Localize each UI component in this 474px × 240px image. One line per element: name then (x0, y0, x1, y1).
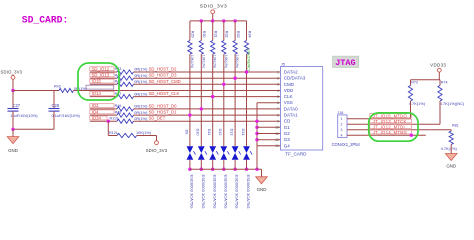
wire (90, 120, 117, 122)
wire (90, 71, 117, 73)
svg-text:R31: R31 (214, 31, 218, 38)
wire / net JT_IO13_MTCK (347, 123, 440, 125)
resistor R33 (pull-up) (234, 21, 236, 41)
wire (438, 72, 440, 80)
svg-text:SD_CARD:: SD_CARD: (22, 14, 69, 25)
node junction column/row (233, 77, 236, 80)
ground (445, 154, 457, 161)
svg-text:10K(1%)(NC): 10K(1%)(NC) (247, 49, 251, 71)
wire (212, 160, 214, 169)
svg-text:4: 4 (341, 134, 343, 138)
node junction collector (255, 120, 258, 123)
svg-text:0R(1%): 0R(1%) (134, 116, 148, 121)
empty label box on VDD row (86, 85, 114, 89)
svg-text:R29: R29 (191, 31, 195, 38)
svg-text:ESD0603 3CA75G: ESD0603 3CA75G (212, 175, 217, 209)
svg-text:R30: R30 (202, 31, 206, 38)
wire / net SD_HOST_D2 (134, 71, 281, 73)
svg-text:10K(1%): 10K(1%) (224, 55, 228, 68)
svg-text:IO4: IO4 (92, 109, 99, 114)
svg-text:0R(1%): 0R(1%) (134, 67, 148, 72)
svg-text:SD_HOST_CLK: SD_HOST_CLK (149, 91, 180, 96)
svg-text:0R(1%): 0R(1%) (134, 104, 148, 109)
wire rail (190, 20, 247, 22)
svg-text:0R(1%): 0R(1%) (134, 91, 148, 96)
node JT_IO12_MTDI label (370, 125, 412, 129)
node junction bottom (211, 168, 214, 171)
node junction (11, 128, 14, 131)
wire (107, 121, 109, 135)
svg-text:R34: R34 (247, 31, 251, 38)
resistor R30 (pull-up) (200, 21, 202, 41)
wire stub (257, 133, 281, 135)
wire / net JT_IO12_MTDI (347, 129, 451, 131)
node junction rail (211, 19, 214, 22)
wire (74, 90, 281, 92)
node junction rail (222, 19, 225, 22)
node junction (11, 89, 14, 92)
wire (450, 145, 452, 154)
wire (223, 160, 225, 169)
wire (200, 160, 202, 169)
node junction bottom (233, 168, 236, 171)
svg-text:SDIO_3V3: SDIO_3V3 (1, 70, 23, 75)
highlight box (left nets) (78, 63, 119, 100)
svg-text:6: 6 (277, 101, 279, 105)
wire (12, 111, 14, 129)
svg-text:DATA2: DATA2 (284, 70, 298, 75)
svg-text:SD_HOST_D1: SD_HOST_D1 (149, 110, 178, 115)
node junction column/row (211, 95, 214, 98)
wire ground bus (190, 168, 262, 170)
svg-text:D9: D9 (184, 130, 188, 135)
resistor R32 (pull-up) (223, 21, 225, 41)
node junction column/row (200, 107, 203, 110)
svg-text:D14: D14 (241, 129, 245, 136)
wire / net JT_IO14_MTMS (347, 134, 426, 136)
node junction collector (255, 132, 258, 135)
wire (246, 160, 248, 169)
resistor R34 (pull-up) (246, 21, 248, 41)
svg-text:10K(1%): 10K(1%) (235, 55, 239, 68)
svg-text:JT_IO13_MTCK: JT_IO13_MTCK (373, 119, 407, 124)
node junction (255, 168, 258, 171)
node IO14 label (90, 91, 114, 95)
wire (410, 101, 412, 119)
svg-text:0R(1%): 0R(1%) (134, 110, 148, 115)
svg-text:SDIO_3V3: SDIO_3V3 (146, 148, 168, 153)
svg-text:R81: R81 (452, 123, 459, 127)
svg-text:JT_IO14_MTMS: JT_IO14_MTMS (373, 130, 407, 135)
svg-text:ESD0603 3CA75G: ESD0603 3CA75G (246, 175, 251, 209)
svg-text:D11: D11 (207, 129, 211, 136)
svg-text:CD/DATA3: CD/DATA3 (284, 76, 306, 81)
node junction rail (200, 19, 203, 22)
wire / net SD_HOST_CMD (134, 83, 281, 85)
svg-text:0R(1%): 0R(1%) (134, 79, 148, 84)
svg-text:2: 2 (277, 77, 279, 81)
wire (90, 83, 117, 85)
wire (12, 79, 14, 90)
wire (90, 114, 117, 116)
wire column (189, 54, 191, 146)
svg-text:JTAG: JTAG (335, 58, 355, 68)
svg-text:9: 9 (277, 120, 279, 124)
svg-text:ESD0603 3CA75G: ESD0603 3CA75G (190, 175, 195, 209)
wire (212, 14, 214, 21)
node junction bottom (188, 168, 191, 171)
svg-text:R74: R74 (441, 80, 448, 84)
wire (90, 77, 117, 79)
svg-text:SD_HOST_CMD: SD_HOST_CMD (149, 79, 181, 84)
wire / net SD_HOST_CLK (134, 96, 281, 98)
node junction column/row (245, 70, 248, 73)
svg-text:4.7K(1%): 4.7K(1%) (441, 146, 458, 151)
svg-text:J18: J18 (337, 111, 343, 115)
node JT_IO14_MTMS label (370, 130, 412, 134)
svg-text:SD_IO12: SD_IO12 (92, 66, 110, 71)
wire column (223, 54, 225, 146)
svg-text:CON4X1_2P54: CON4X1_2P54 (332, 142, 361, 147)
svg-text:CMD: CMD (284, 82, 295, 87)
node JT_IO15_MTDO label (370, 114, 412, 118)
svg-text:5: 5 (277, 95, 279, 99)
svg-text:R32: R32 (225, 31, 229, 38)
svg-text:0.1uF/16V(10%): 0.1uF/16V(10%) (52, 113, 81, 118)
svg-text:4.7K(1%)(NC): 4.7K(1%)(NC) (440, 101, 465, 106)
svg-text:4: 4 (277, 89, 279, 93)
node junction MTMS (410, 134, 413, 137)
svg-text:10K(1%): 10K(1%) (136, 130, 152, 135)
node junction column/row (188, 113, 191, 116)
svg-text:1: 1 (341, 117, 343, 121)
svg-text:CD: CD (284, 119, 291, 124)
node junction bottom (200, 168, 203, 171)
svg-text:VDD33: VDD33 (430, 62, 446, 67)
svg-text:R42: R42 (54, 84, 61, 88)
svg-text:0R(1%): 0R(1%) (134, 73, 148, 78)
wire (439, 101, 441, 124)
svg-text:SD_HOST_D0: SD_HOST_D0 (149, 103, 178, 108)
svg-text:IO15: IO15 (92, 79, 102, 84)
svg-text:3: 3 (277, 83, 279, 87)
power SDIO_3V3 (below R121) (156, 136, 158, 141)
svg-text:SD_DET: SD_DET (149, 116, 166, 121)
svg-text:G4: G4 (284, 143, 291, 148)
svg-text:SD_IO13: SD_IO13 (92, 73, 110, 78)
svg-text:IO14: IO14 (92, 91, 102, 96)
svg-text:G3: G3 (284, 137, 291, 142)
svg-text:7: 7 (277, 107, 279, 111)
svg-text:JT_IO12_MTDI: JT_IO12_MTDI (373, 124, 405, 129)
svg-text:R119: R119 (110, 116, 119, 120)
svg-text:SD_HOST_D3: SD_HOST_D3 (149, 73, 178, 78)
wire rail (411, 79, 441, 81)
wire (90, 108, 117, 110)
svg-text:10: 10 (275, 126, 279, 130)
svg-text:VSS: VSS (284, 100, 293, 105)
wire (137, 135, 157, 137)
wire (13, 90, 59, 92)
wire / net SD_HOST_D0 (134, 108, 281, 110)
svg-text:10K(1%): 10K(1%) (201, 55, 205, 68)
wire VSS (257, 102, 281, 104)
svg-text:CLK: CLK (284, 94, 293, 99)
node IO4 label (90, 110, 114, 114)
svg-text:DATA1: DATA1 (284, 113, 298, 118)
svg-text:2: 2 (341, 123, 343, 127)
svg-text:C28: C28 (52, 103, 60, 108)
highlight box (JTAG nets) (369, 113, 418, 141)
svg-text:10K(1%): 10K(1%) (213, 55, 217, 68)
ground (261, 169, 263, 177)
svg-text:TF_CARD: TF_CARD (285, 152, 307, 157)
wire / net SD_DET (134, 120, 281, 122)
node IO15 label (90, 79, 114, 83)
ground (12, 129, 14, 136)
svg-text:J5: J5 (281, 62, 285, 66)
svg-text:8: 8 (277, 113, 279, 117)
svg-text:C27: C27 (13, 103, 21, 108)
wire stub (257, 139, 281, 141)
svg-text:10uF/16V(10%): 10uF/16V(10%) (10, 113, 38, 118)
node JT_IO13_MTCK label (370, 119, 412, 123)
svg-text:GND: GND (257, 187, 267, 192)
node junction bottom (245, 168, 248, 171)
svg-text:SD_HOST_D2: SD_HOST_D2 (149, 67, 178, 72)
svg-text:IO34: IO34 (92, 116, 102, 121)
wire stub (257, 126, 281, 128)
svg-text:DATA0: DATA0 (284, 106, 298, 111)
wire (234, 160, 236, 169)
wire / net JT_IO15_MTDO (347, 118, 411, 120)
wire (53, 91, 55, 109)
svg-text:D10: D10 (196, 129, 200, 136)
svg-text:GND: GND (8, 148, 18, 153)
wire / net SD_HOST_D3 (134, 77, 281, 79)
node SD_IO13 label (90, 73, 114, 77)
wire / net SD_HOST_D1 (134, 114, 281, 116)
wire column (234, 54, 236, 146)
svg-text:VDD: VDD (284, 88, 294, 93)
wire (189, 160, 191, 169)
svg-text:SDIO_3V3: SDIO_3V3 (200, 3, 227, 9)
title JTAG (333, 56, 359, 67)
svg-text:13: 13 (275, 144, 279, 148)
svg-text:4.7K(1%): 4.7K(1%) (409, 101, 426, 106)
svg-text:12: 12 (275, 138, 279, 142)
svg-text:G1: G1 (284, 125, 291, 130)
node junction rail (233, 19, 236, 22)
wire stub (257, 145, 281, 147)
wire column (200, 54, 202, 146)
svg-text:IO2: IO2 (92, 103, 99, 108)
node IO2 label (90, 104, 114, 108)
node SD_IO12 label (90, 67, 114, 71)
svg-text:GND: GND (446, 163, 456, 168)
wire (90, 96, 117, 98)
wire column (246, 54, 248, 146)
svg-text:ESD0603 3CA75G: ESD0603 3CA75G (201, 175, 206, 209)
svg-text:ESD0603 3CA75G: ESD0603 3CA75G (223, 175, 228, 209)
resistor R29 (pull-up) (189, 21, 191, 41)
svg-text:3: 3 (341, 128, 343, 132)
node junction column/row (222, 83, 225, 86)
wire vertical collector (256, 103, 258, 169)
svg-text:D13: D13 (230, 129, 234, 136)
resistor R31 (pull-up) (212, 21, 214, 41)
wire (53, 111, 55, 129)
svg-text:R73: R73 (411, 80, 418, 84)
svg-text:JT_IO15_MTDO: JT_IO15_MTDO (373, 113, 407, 118)
svg-text:11: 11 (275, 132, 279, 136)
wire (13, 128, 54, 130)
svg-text:ESD0603 3CA75G: ESD0603 3CA75G (235, 175, 240, 209)
svg-text:10K(1%): 10K(1%) (190, 55, 194, 68)
node junction SD_DET (107, 120, 110, 123)
svg-text:D12: D12 (218, 129, 222, 136)
svg-text:R121: R121 (109, 131, 118, 135)
svg-text:R33: R33 (236, 31, 240, 38)
node junction bottom (222, 168, 225, 171)
node IO34 label (90, 116, 107, 120)
wire column (212, 54, 214, 146)
node junction collector (255, 126, 258, 129)
svg-text:G2: G2 (284, 131, 291, 136)
svg-text:1: 1 (277, 70, 279, 74)
node junction collector (255, 138, 258, 141)
